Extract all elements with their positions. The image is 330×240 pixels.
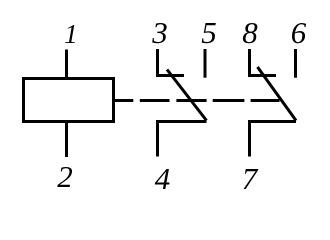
svg-text:7: 7	[242, 161, 259, 196]
svg-text:6: 6	[291, 15, 307, 50]
pin 5 lead (fixed contact)	[204, 49, 207, 78]
svg-text:5: 5	[201, 15, 217, 50]
pin 3 lead and fixed contact	[156, 49, 184, 76]
pin 6 lead (fixed contact)	[294, 49, 297, 78]
mechanical link dashed wire	[114, 99, 280, 102]
relay coil K1	[24, 79, 114, 122]
switch arm contact 1 (common pin 4)	[167, 70, 207, 121]
pin 8 lead and fixed contact	[248, 49, 276, 76]
svg-text:3: 3	[151, 15, 168, 50]
pin 1 lead	[65, 50, 68, 78]
pin 4 lead and common bar	[156, 122, 207, 157]
svg-text:4: 4	[155, 161, 171, 196]
svg-text:8: 8	[242, 15, 258, 50]
svg-text:2: 2	[57, 159, 73, 194]
switch arm contact 2 (common pin 7)	[258, 67, 297, 121]
pin 2 lead	[65, 123, 68, 157]
svg-text:1: 1	[64, 19, 78, 49]
pin 7 lead and common bar	[248, 122, 296, 157]
